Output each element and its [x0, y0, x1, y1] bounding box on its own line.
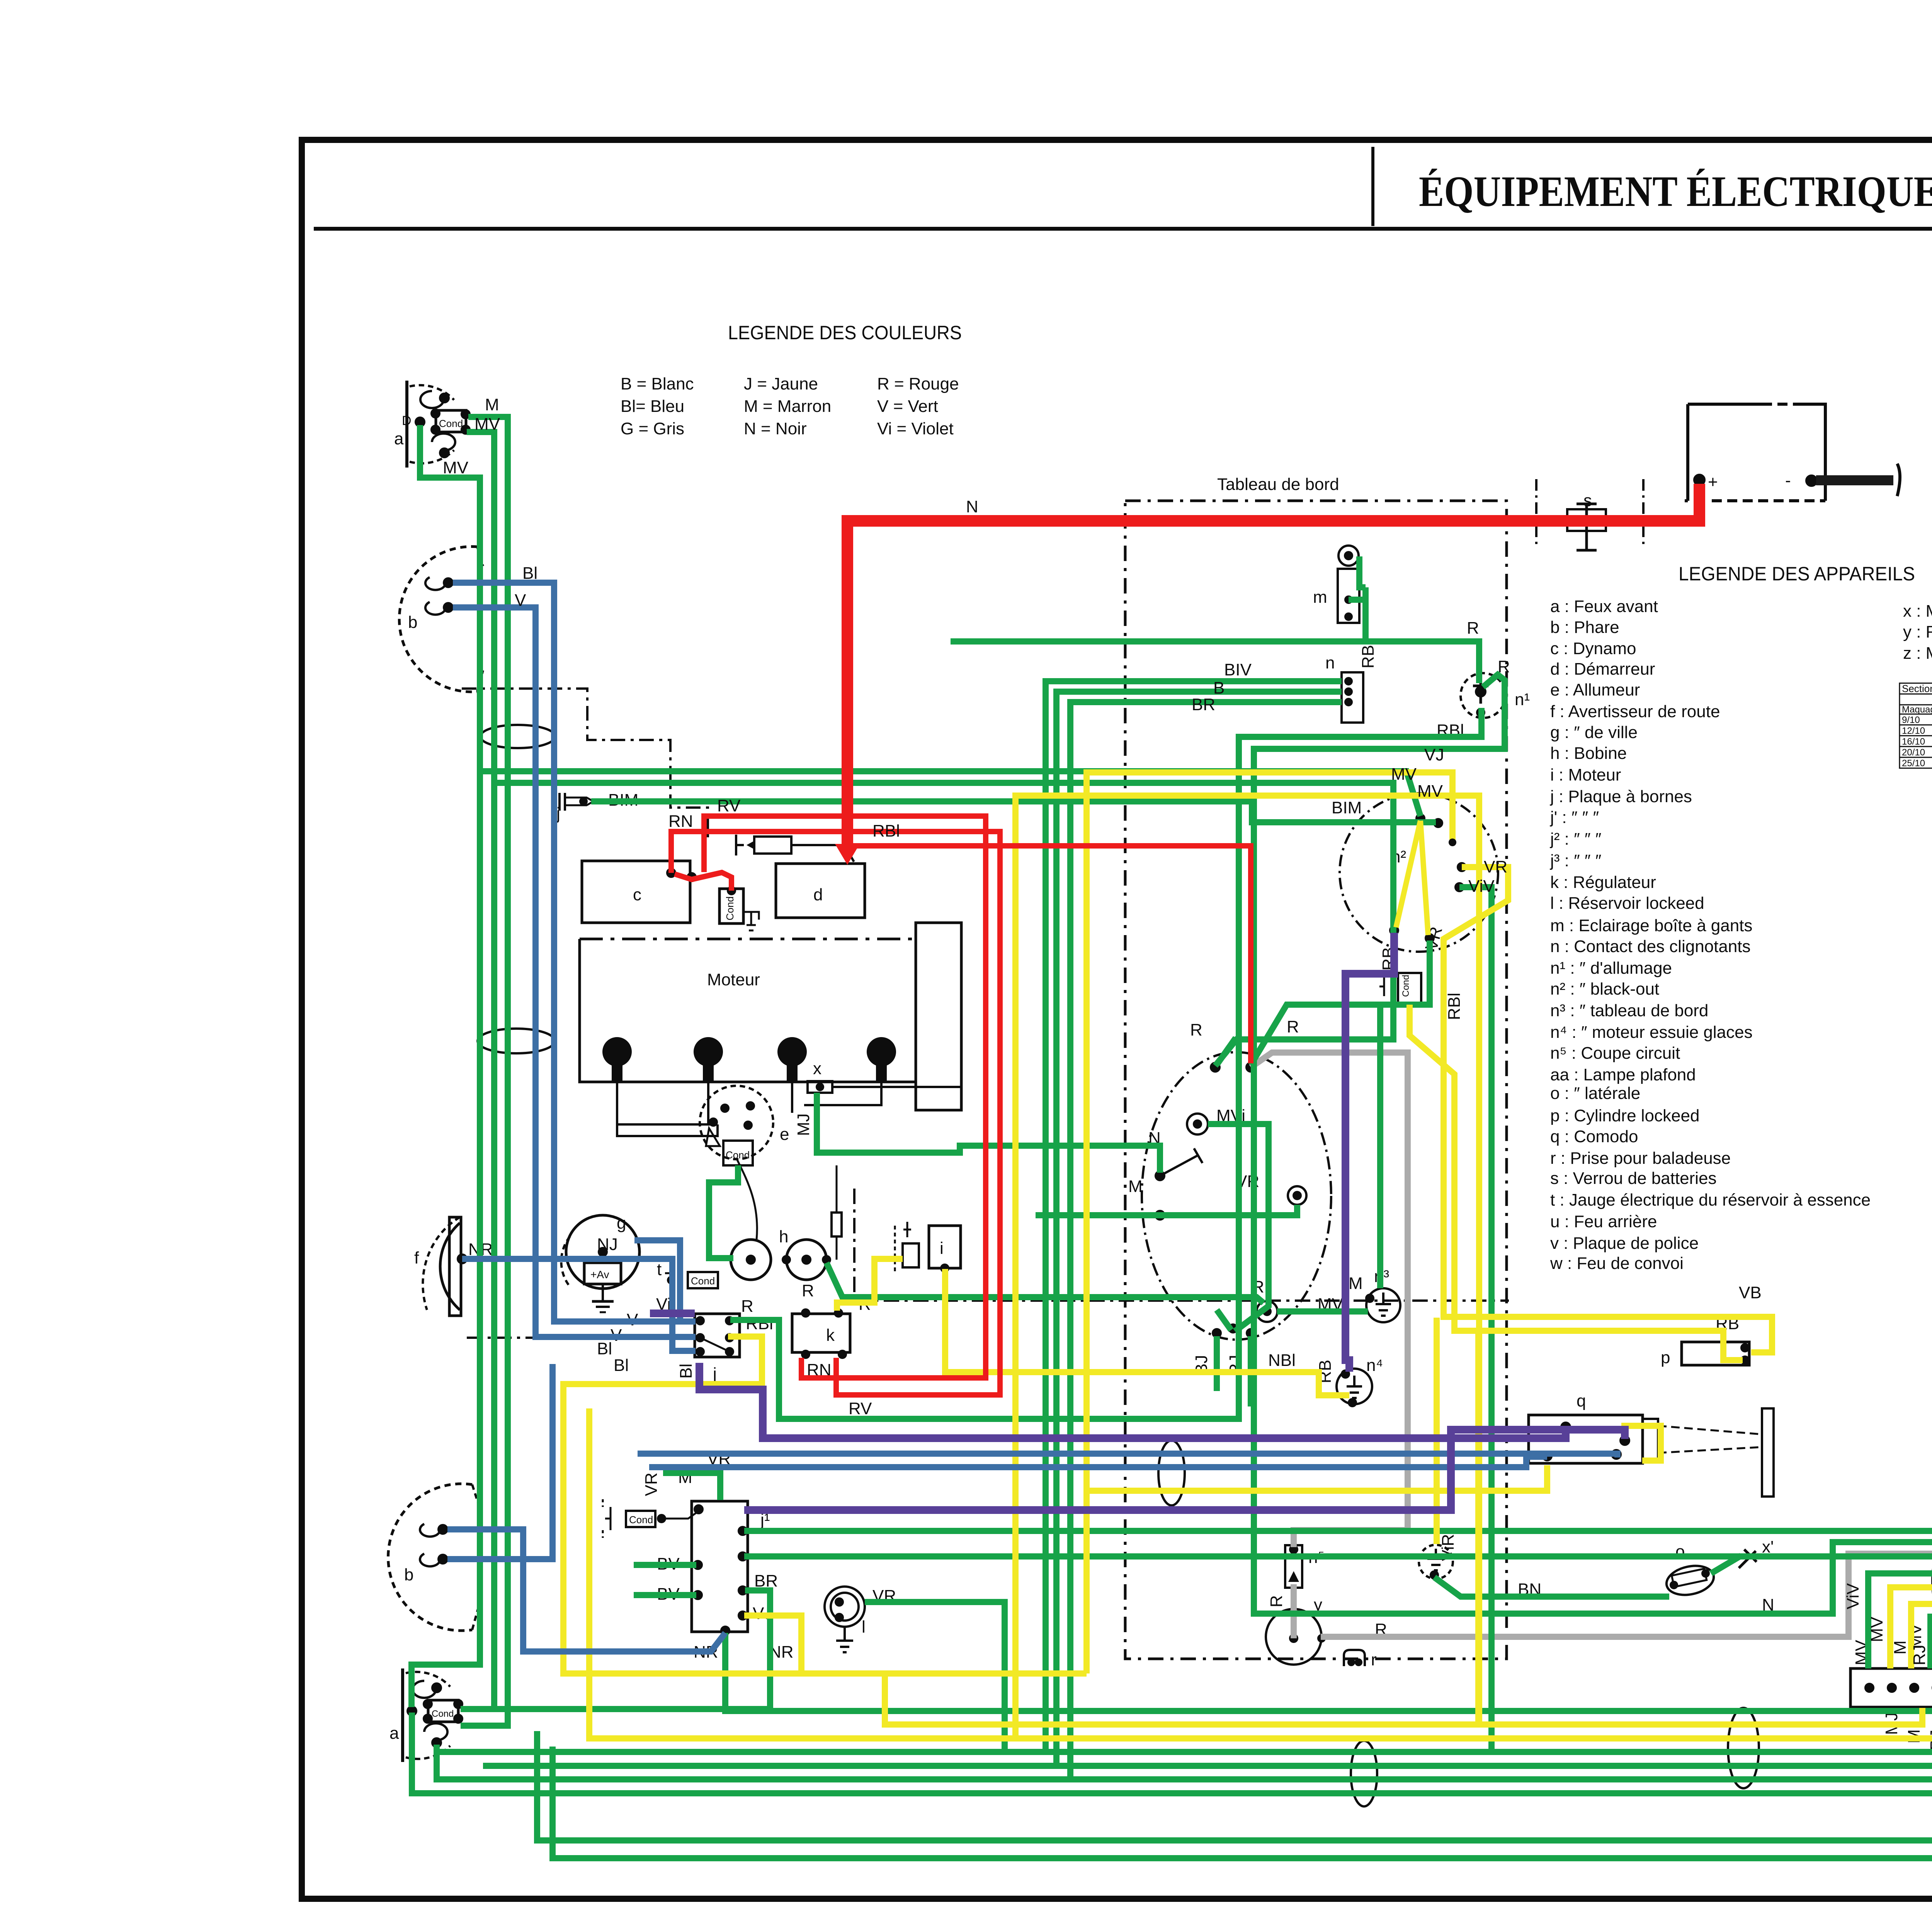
svg-text:m: m [1313, 588, 1327, 607]
motor i [895, 1222, 961, 1272]
svg-text:i: i [940, 1239, 944, 1258]
svg-text:J = Jaune: J = Jaune [744, 374, 818, 393]
svg-text:n⁴: n⁴ [1366, 1356, 1383, 1375]
headlamp b (bottom-left) [388, 1484, 478, 1631]
wire labels over wires [443, 395, 1929, 1665]
svg-text:RBl: RBl [872, 821, 900, 840]
horn f (avertisseur de route) [414, 1217, 493, 1316]
violet wires [650, 933, 1625, 1510]
wire VJ n2 loop to q [1087, 772, 1547, 1673]
wire NBl i to n4 [945, 1269, 1349, 1395]
svg-text:MV: MV [1417, 782, 1443, 801]
svg-text:aa : Lampe plafond: aa : Lampe plafond [1550, 1065, 1696, 1084]
glovebox lamp m [1313, 546, 1359, 623]
svg-text:q: q [1577, 1391, 1586, 1410]
svg-text:j: j [712, 1364, 717, 1383]
svg-text:Bl: Bl [597, 1339, 612, 1358]
color legend column 1 [621, 374, 959, 438]
wire bundle b4 VR-ViV [437, 1549, 1932, 1752]
plug leads to distributor [617, 1082, 718, 1136]
lockheed cylinder p [1661, 1283, 1762, 1367]
Moteur block [580, 923, 961, 1136]
svg-text:Maquage: Maquage [1902, 704, 1932, 715]
svg-text:N: N [966, 497, 978, 516]
svg-text:LEGENDE DES APPAREILS: LEGENDE DES APPAREILS [1679, 563, 1915, 585]
wire MV long to n2 right dot [494, 783, 1393, 1066]
wire B n to n3 top [1056, 692, 1342, 1766]
wire thin red dynamo c to regulator k [671, 832, 1000, 1395]
svg-text:l : Réservoir lockeed: l : Réservoir lockeed [1550, 894, 1704, 913]
svg-text:R: R [1467, 619, 1479, 638]
blue wires [447, 583, 1617, 1651]
svg-text:B: B [1213, 679, 1225, 697]
wire yellow bundle 2 [589, 1408, 1932, 1738]
svg-text:j : Plaque à bornes: j : Plaque à bornes [1549, 787, 1692, 806]
svg-text:p : Cylindre lockeed: p : Cylindre lockeed [1550, 1106, 1699, 1125]
svg-text:z : Moteur chauffage: z : Moteur chauffage [1903, 644, 1932, 663]
wire q yellow wrap [1621, 1426, 1661, 1461]
wire BIV n to n3 [1046, 681, 1342, 1752]
svg-text:n : Contact des clignotants: n : Contact des clignotants [1550, 937, 1751, 956]
svg-text:n: n [1325, 653, 1335, 672]
svg-text:c : Dynamo: c : Dynamo [1550, 639, 1636, 658]
wire MV long to n2 left dot [480, 771, 1420, 816]
wire VB to p [1444, 867, 1772, 1352]
wire BIM [591, 801, 1436, 822]
svg-text:20/10: 20/10 [1902, 747, 1925, 758]
svg-text:25/10: 25/10 [1902, 758, 1925, 769]
wire MV left bus [412, 425, 480, 1707]
svg-text:NBl: NBl [1268, 1351, 1296, 1370]
wire bundle b1 RV [725, 1512, 1932, 1711]
gray wire bundle [1251, 1053, 1932, 1638]
wire NR j1 to phare b bottom [447, 1529, 725, 1651]
regulator k [792, 1295, 872, 1418]
svg-text:RV: RV [717, 796, 741, 815]
wire violet j1 to q [744, 1430, 1625, 1510]
svg-text:Cond: Cond [629, 1514, 653, 1526]
outer page border frame [302, 140, 1932, 1899]
wire from mano-contact x [817, 1093, 1160, 1173]
wire RB to p [1410, 1005, 1743, 1360]
wire bundle b5 BV [483, 1570, 1932, 1766]
svg-text:BIM: BIM [1332, 798, 1362, 817]
suppressor cond near h [657, 1260, 718, 1288]
svg-text:M: M [1128, 1177, 1143, 1196]
lamp a (feux avant top-left) [394, 381, 469, 468]
svg-text:Moteur: Moteur [707, 970, 760, 989]
svg-text:RBl: RBl [1445, 993, 1464, 1020]
svg-text:e : Allumeur: e : Allumeur [1550, 680, 1640, 699]
wire j1 long green 2 [744, 1556, 1932, 1587]
wire yellow bundle 1 [563, 1337, 1922, 1725]
svg-text:G = Gris: G = Gris [621, 419, 684, 438]
svg-text:VB: VB [1739, 1283, 1762, 1302]
svg-text:t : Jauge électrique du réserv: t : Jauge électrique du réservoir à esse… [1550, 1190, 1871, 1209]
svg-text:c: c [633, 885, 641, 904]
svg-text:o : ″ latérale: o : ″ latérale [1550, 1084, 1640, 1103]
svg-text:t: t [657, 1260, 662, 1279]
svg-text:e: e [780, 1125, 789, 1144]
svg-text:MV: MV [474, 415, 500, 434]
wire e to coil h [709, 1165, 738, 1258]
svg-text:Cond: Cond [432, 1709, 454, 1719]
wire RBl from n1 down [1254, 675, 1932, 1614]
svg-text:M: M [1349, 1274, 1363, 1293]
wire j1 BV stubs [634, 1565, 696, 1595]
dash lamp n3 [1318, 1267, 1400, 1322]
Tableau de bord dashed box [1125, 501, 1507, 1659]
svg-text:x: x [813, 1059, 821, 1078]
svg-text:f : Avertisseur de route: f : Avertisseur de route [1550, 702, 1720, 721]
steering column switch q [1529, 1391, 1774, 1497]
svg-text:Bl: Bl [677, 1364, 696, 1379]
battery lock s [1536, 479, 1643, 550]
svg-text:n² : ″ black-out: n² : ″ black-out [1550, 980, 1659, 998]
svg-text:V = Vert: V = Vert [877, 397, 938, 416]
svg-text:+: + [1708, 473, 1718, 492]
svg-text:Cond: Cond [1401, 975, 1411, 997]
wire R m to n1 [951, 556, 1479, 683]
wire j2 yellow riser M to j3 [1911, 1604, 1932, 1668]
svg-text:d: d [813, 885, 823, 904]
cable sheath ellipses left [480, 725, 555, 748]
big blackout switch n2 cluster [1128, 793, 1498, 1376]
svg-text:b: b [404, 1565, 413, 1584]
wire n2 lamp terminal to n3 [1277, 1308, 1368, 1315]
svg-text:r : Prise pour baladeuse: r : Prise pour baladeuse [1550, 1149, 1731, 1168]
connector j' (BIM) [556, 791, 638, 823]
svg-text:v : Plaque de police: v : Plaque de police [1550, 1234, 1699, 1253]
wire blue to comodo q 2 [649, 1457, 1547, 1467]
svg-text:M = Marron: M = Marron [744, 397, 831, 416]
svg-text:N = Noir: N = Noir [744, 419, 807, 438]
svg-text:n¹: n¹ [1515, 690, 1530, 709]
svg-text:n⁵ : Coupe circuit: n⁵ : Coupe circuit [1550, 1044, 1680, 1063]
wire j2 yellow risers [1015, 796, 1479, 1738]
wire yellow riser right of tableau [1475, 1329, 1481, 1725]
svg-text:u : Feu arrière: u : Feu arrière [1550, 1212, 1657, 1231]
svg-text:RB: RB [1359, 645, 1378, 668]
svg-text:9/10: 9/10 [1902, 715, 1920, 725]
svg-text:y : Rhéostat de chauffage: y : Rhéostat de chauffage [1903, 622, 1932, 641]
wire blue to comodo q 1 [638, 1454, 1617, 1458]
svg-text:l: l [862, 1617, 866, 1636]
svg-text:+Av: +Av [590, 1269, 609, 1281]
wire thin red cond to regulator k [704, 816, 986, 1378]
svg-text:MV: MV [1391, 765, 1417, 784]
svg-text:VJ: VJ [1424, 745, 1444, 764]
green wires [412, 414, 1932, 1858]
svg-text:Bl: Bl [522, 564, 537, 583]
svg-text:R = Rouge: R = Rouge [877, 374, 959, 393]
svg-text:h : Bobine: h : Bobine [1550, 744, 1627, 763]
svg-text:Cond: Cond [439, 418, 463, 429]
lamp a (bottom-left) [389, 1668, 462, 1762]
svg-text:s : Verrou de batteries: s : Verrou de batteries [1550, 1169, 1716, 1188]
svg-text:d : Démarreur: d : Démarreur [1550, 660, 1655, 679]
svg-text:Cond: Cond [691, 1275, 715, 1287]
svg-text:j² : ″ ″ ″: j² : ″ ″ ″ [1549, 830, 1601, 849]
wire BR n to violet junction [1070, 702, 1342, 1779]
lockheed reservoir l [825, 1587, 896, 1652]
terminal block j [597, 1295, 773, 1383]
svg-text:a: a [394, 429, 404, 448]
wire red zigzag at c [675, 872, 731, 891]
lamp ViR [1419, 1534, 1458, 1579]
wire NJ horn g [634, 1240, 680, 1321]
cond RB (top right of n2) [1379, 925, 1464, 1020]
side lamp o [1518, 1537, 1774, 1599]
section cables table [1900, 683, 1932, 769]
wire bottom long green 1 [537, 1708, 1932, 1840]
svg-text:VR: VR [642, 1473, 661, 1496]
chassis dashed line top-left [462, 689, 708, 842]
wire BN lamp ViR to o [1434, 1577, 1669, 1597]
wire k R yellow [837, 1259, 903, 1311]
wire BR bottom a to j1 [461, 1590, 770, 1709]
wire j RBl to right [730, 708, 1481, 1419]
svg-text:16/10: 16/10 [1902, 736, 1925, 747]
wire bottom long green 2 [553, 1708, 1932, 1858]
svg-text:LEGENDE DES COULEURS: LEGENDE DES COULEURS [728, 322, 962, 344]
wire M from lamp a top to lamp a bottom [461, 417, 508, 1726]
svg-text:r: r [1371, 1650, 1377, 1669]
wire j2 riser green 1b [1868, 1532, 1932, 1668]
svg-text:Vi = Violet: Vi = Violet [877, 419, 954, 438]
mano-contact x [794, 1059, 961, 1136]
coupe circuit n5 [1285, 1545, 1325, 1588]
svg-text:12/10: 12/10 [1902, 726, 1925, 736]
svg-text:BIV: BIV [1224, 660, 1252, 679]
wire gray n5 to rheostat y [1291, 1584, 1297, 1638]
wire MV from lamp a top box [467, 432, 494, 1709]
svg-text:V: V [515, 591, 526, 610]
wire Bl phare b [453, 583, 696, 1321]
svg-text:R: R [741, 1297, 753, 1316]
wire Vi j to q [650, 1313, 1566, 1438]
svg-text:i : Moteur: i : Moteur [1550, 765, 1621, 784]
svg-text:n³ : ″ tableau de bord: n³ : ″ tableau de bord [1550, 1001, 1708, 1020]
svg-text:a : Feux avant: a : Feux avant [1550, 597, 1658, 616]
horn g (avertisseur de ville) [561, 1214, 639, 1312]
wiper motor n4 [1316, 1356, 1383, 1406]
svg-text:R: R [802, 1281, 814, 1300]
wire yellow riser to lamp ViR [1434, 1318, 1440, 1544]
svg-text:Cond: Cond [724, 896, 736, 920]
svg-text:-: - [1785, 471, 1791, 490]
svg-text:M: M [485, 395, 499, 414]
svg-text:D: D [402, 413, 412, 428]
svg-text:BR: BR [1192, 695, 1215, 714]
svg-text:m : Eclairage boîte à gants: m : Eclairage boîte à gants [1550, 916, 1752, 935]
spark plugs [602, 1037, 896, 1082]
svg-text:f: f [414, 1248, 419, 1267]
wire Bl phare b bottom [447, 1364, 553, 1559]
wire V phare b [453, 607, 696, 1337]
headlamp b (phare top-left) [399, 547, 483, 692]
dynamo c box [582, 861, 696, 923]
svg-text:j' : ″ ″ ″: j' : ″ ″ ″ [1549, 808, 1599, 827]
wire j1 VJ down [744, 1616, 801, 1673]
wire violet RB to wiper n4 [1345, 933, 1394, 1372]
wire NR horn f to j [462, 1259, 696, 1351]
svg-text:b: b [408, 613, 417, 632]
svg-text:NJ: NJ [597, 1235, 618, 1254]
wire bundle b7 M [412, 1713, 1932, 1793]
svg-text:M: M [1891, 1640, 1910, 1655]
svg-text:w : Feu de convoi: w : Feu de convoi [1550, 1254, 1684, 1273]
wire RBl red to n2 [853, 846, 1251, 1063]
svg-text:R: R [1287, 1017, 1299, 1036]
svg-text:x : Mano-contact: x : Mano-contact [1903, 602, 1932, 621]
wire gray n2 to n5 [1251, 1053, 1408, 1547]
svg-text:RV: RV [849, 1399, 872, 1418]
wire j2 riser green 2 [1930, 1578, 1932, 1668]
svg-text:k : Régulateur: k : Régulateur [1550, 873, 1656, 892]
wire o to x' [1711, 1556, 1741, 1573]
svg-text:ViV: ViV [1844, 1583, 1862, 1609]
svg-text:R: R [1267, 1595, 1286, 1607]
coil h : two circles [731, 1158, 842, 1300]
svg-text:N: N [1762, 1595, 1774, 1614]
ignition switch n1 [1437, 619, 1530, 740]
svg-text:B = Blanc: B = Blanc [621, 374, 694, 393]
svg-text:MJ: MJ [794, 1113, 813, 1136]
starter d box [776, 864, 865, 918]
svg-text:MV: MV [443, 458, 469, 477]
svg-text:h: h [779, 1227, 788, 1246]
distributor e [700, 1086, 789, 1165]
svg-text:g : ″ de ville: g : ″ de ville [1550, 723, 1638, 742]
svg-text:Bl: Bl [614, 1356, 629, 1375]
svg-text:k: k [826, 1326, 835, 1345]
svg-text:Bl= Bleu: Bl= Bleu [621, 397, 684, 416]
svg-text:n¹ : ″ d'allumage: n¹ : ″ d'allumage [1550, 959, 1672, 978]
red wires [671, 484, 1699, 1395]
socket r [1344, 1650, 1377, 1669]
wire coil h to n2 M [827, 1263, 1264, 1303]
svg-text:q : Comodo: q : Comodo [1550, 1127, 1638, 1146]
svg-text:Tableau de bord: Tableau de bord [1217, 475, 1339, 494]
wire j2 riser green 1 [1459, 887, 1492, 1752]
wire j1 VR stub [663, 1473, 720, 1500]
wire MVi [1208, 1124, 1269, 1331]
svg-text:ViV: ViV [1468, 877, 1495, 896]
wire bundle b6 BR [437, 1607, 1932, 1779]
wire j2 yellow riser MV to j3 [1890, 1570, 1932, 1668]
chassis dash-dot lines [467, 1337, 699, 1339]
battery [1685, 404, 1900, 501]
terminal block j1 [642, 1449, 794, 1662]
svg-text:j³ : ″ ″ ″: j³ : ″ ″ ″ [1549, 851, 1601, 870]
rheostat y [1266, 1595, 1387, 1665]
wire main battery red [847, 484, 1699, 849]
connector j2 [1850, 1607, 1932, 1787]
condenser near c [719, 887, 759, 930]
svg-text:Section câbles: Section câbles [1902, 683, 1932, 694]
svg-text:RN: RN [668, 812, 693, 831]
svg-text:MV: MV [1867, 1616, 1886, 1642]
flasher contact n [1325, 645, 1378, 723]
wire n2 bottom BJ/RJ legs [1217, 1310, 1251, 1406]
svg-text:R: R [1190, 1020, 1202, 1039]
svg-text:ÉQUIPEMENT ÉLECTRIQUE: ÉQUIPEMENT ÉLECTRIQUE [1419, 168, 1932, 216]
svg-text:RJ: RJ [1910, 1645, 1929, 1665]
wire n2 bottom to blackout ellipse [1251, 940, 1430, 1288]
svg-text:n⁴ : ″ moteur essuie gl: n⁴ : ″ moteur essuie glaces [1550, 1023, 1753, 1042]
svg-text:b : Phare: b : Phare [1550, 618, 1619, 637]
wire j1 long green 1 [744, 1528, 1932, 1534]
yellow wires [563, 772, 1932, 1738]
svg-text:g: g [617, 1214, 626, 1233]
wire yellow V inside n2 [1396, 821, 1428, 935]
svg-text:VR: VR [1484, 857, 1507, 876]
svg-text:p: p [1661, 1348, 1670, 1367]
cond near j1 [603, 1499, 699, 1538]
small switch component above d [736, 835, 854, 862]
svg-text:a: a [389, 1724, 399, 1743]
wire gray y to heater z [1321, 1343, 1932, 1637]
